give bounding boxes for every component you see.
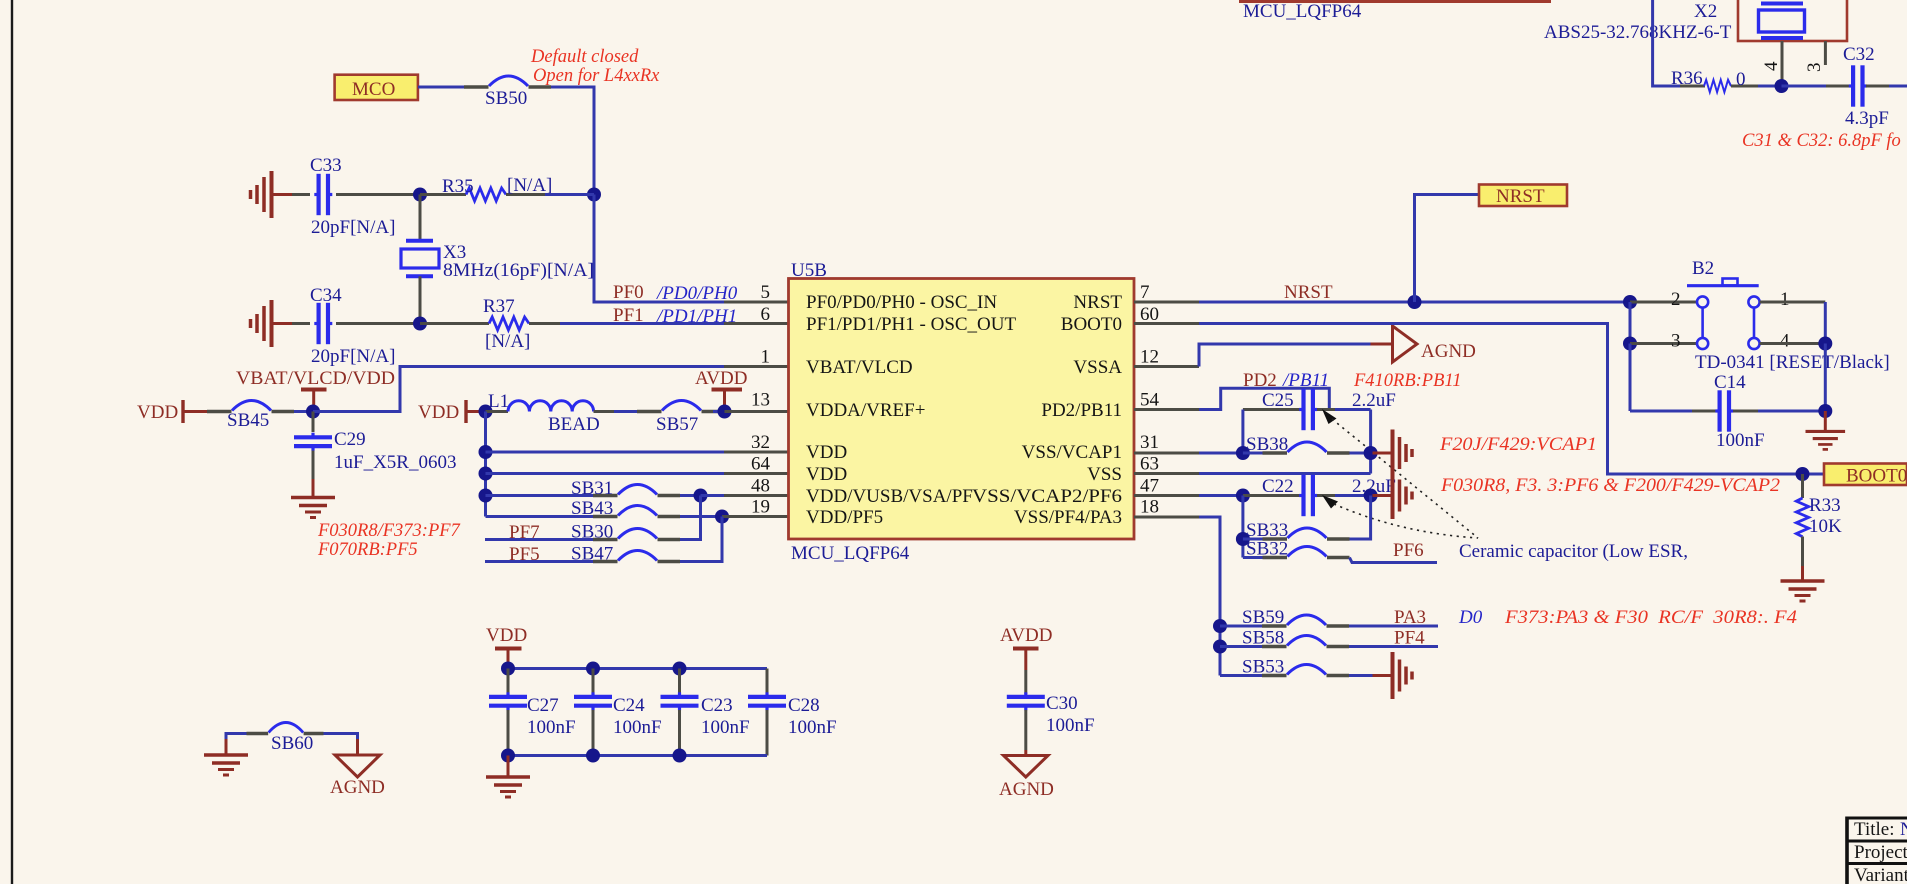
svg-text:100nF: 100nF — [788, 717, 837, 738]
svg-text:AVDD: AVDD — [695, 368, 747, 389]
dotted callout line C25 — [1332, 419, 1478, 538]
svg-text:3: 3 — [1804, 63, 1825, 73]
resistor R36 — [1680, 80, 1758, 92]
svg-text:C34: C34 — [310, 285, 342, 306]
solder bridge SB43 — [593, 506, 680, 517]
ground below C14 — [1806, 411, 1846, 449]
svg-text:PF1: PF1 — [613, 305, 644, 326]
svg-text:PF1/PD1/PH1 - OSC_OUT: PF1/PD1/PH1 - OSC_OUT — [806, 314, 1016, 335]
junction SB58 left — [1213, 640, 1227, 654]
svg-text:32: 32 — [751, 432, 770, 453]
svg-text:31: 31 — [1140, 432, 1159, 453]
wire to C22 — [1199, 494, 1243, 497]
junction C22 left — [1236, 489, 1250, 503]
junction rail row48 — [479, 489, 493, 503]
ground at SB53 — [1373, 652, 1413, 699]
svg-text:3: 3 — [1671, 331, 1681, 352]
wire row 64 — [486, 472, 725, 475]
capacitor C34 — [314, 303, 332, 344]
junction C34/X3/R37 — [413, 317, 427, 331]
capacitor C24 — [574, 669, 612, 756]
pin 12 stub — [1134, 365, 1199, 368]
pin 54 stub — [1134, 408, 1199, 411]
junction bottom rail C24 — [586, 749, 600, 763]
svg-text:R37: R37 — [483, 296, 515, 317]
junction BOOT0/R33 — [1796, 467, 1810, 481]
svg-text:7: 7 — [1140, 282, 1150, 303]
svg-text:/PD1/PH1: /PD1/PH1 — [656, 306, 737, 327]
pin 31 stub — [1134, 452, 1199, 455]
svg-text:R35: R35 — [442, 176, 474, 197]
svg-text:F030R8, F3. 3:PF6 & F200/F429-: F030R8, F3. 3:PF6 & F200/F429-VCAP2 — [1440, 476, 1780, 496]
wire NRST net — [1199, 301, 1632, 304]
pin 7 stub — [1134, 301, 1199, 304]
X2 pin 3 stem — [1824, 41, 1827, 65]
solder bridge SB53 — [1262, 665, 1349, 676]
svg-text:C33: C33 — [310, 155, 342, 176]
svg-text:Ceramic capacitor (Low ESR,: Ceramic capacitor (Low ESR, — [1459, 541, 1688, 562]
capacitor C14 — [1630, 390, 1825, 431]
svg-text:100nF: 100nF — [701, 717, 750, 738]
wire SB45 to junction — [294, 410, 313, 413]
svg-text:R33: R33 — [1809, 495, 1841, 516]
capacitor C30 — [1007, 670, 1045, 750]
junction bottom rail C23 — [673, 749, 687, 763]
svg-text:C25: C25 — [1262, 390, 1294, 411]
wire SB58 to PF4 label — [1349, 645, 1438, 648]
wire MCO to SB50 — [418, 86, 464, 89]
callout arrow at C25 — [1322, 409, 1337, 424]
ground at VCAP2 — [1373, 472, 1413, 519]
svg-text:NRST: NRST — [1284, 282, 1333, 303]
svg-text:5: 5 — [761, 282, 771, 303]
svg-text:AGND: AGND — [330, 777, 385, 798]
solder bridge SB58 — [1262, 636, 1349, 647]
svg-text:VDDA/VREF+: VDDA/VREF+ — [806, 400, 925, 421]
crystal X2 variant box — [1738, 0, 1847, 41]
wire top rail — [508, 667, 767, 670]
op-amp U5B MCU body — [789, 279, 1135, 540]
svg-text:PF4: PF4 — [1394, 628, 1425, 649]
wire button pin4 — [1760, 342, 1826, 345]
svg-text:VBAT/VLCD: VBAT/VLCD — [806, 357, 913, 378]
junction top rail C27 — [501, 662, 515, 676]
svg-text:L1: L1 — [488, 391, 509, 412]
junction AVDD/pin13 — [718, 405, 732, 419]
svg-text:C23: C23 — [701, 695, 733, 716]
svg-text:C29: C29 — [334, 429, 366, 450]
junction NRST riser — [1408, 295, 1422, 309]
svg-text:12: 12 — [1140, 347, 1159, 368]
svg-text:BOOT0: BOOT0 — [1846, 466, 1907, 487]
wire SB53 to ground — [1349, 674, 1374, 677]
wire right vertical to C14 row — [1824, 344, 1827, 412]
wire dot to SB33 — [1243, 538, 1264, 541]
wire pin54 riser to C25 — [1199, 388, 1329, 409]
transistor B2 pushbutton — [1687, 258, 1760, 349]
svg-text:PF0: PF0 — [613, 282, 644, 303]
resistor R35 — [420, 188, 545, 201]
capacitor C28 — [748, 669, 786, 756]
svg-text:4.3pF: 4.3pF — [1845, 108, 1889, 129]
wire VDD rail vertical — [484, 412, 487, 517]
solder bridge SB30 — [593, 529, 680, 540]
wire R36 to junction — [1758, 85, 1782, 88]
ground below C29 — [291, 479, 335, 518]
wire C33 to junction — [336, 193, 420, 196]
wire C25 right riser down — [1369, 410, 1372, 474]
port VDD (left) — [137, 400, 207, 423]
wire to SB58 — [1220, 645, 1262, 648]
svg-text:F030R8/F373:PF7: F030R8/F373:PF7 — [317, 521, 461, 541]
svg-text:Open for L4xxRx: Open for L4xxRx — [533, 66, 660, 86]
svg-text:AVDD: AVDD — [1000, 625, 1052, 646]
pin 18 stub — [1134, 516, 1199, 519]
junction pin48 node — [694, 489, 708, 503]
pin 6 stub — [724, 322, 789, 325]
ground below bank — [486, 756, 530, 798]
wire corner to SB32 — [1243, 556, 1264, 559]
port label MCO — [335, 75, 418, 100]
svg-text:10K: 10K — [1809, 516, 1842, 537]
port label NRST — [1479, 185, 1567, 208]
inductor L1 ferrite bead — [486, 401, 594, 412]
svg-text:C30: C30 — [1046, 693, 1078, 714]
wire dot to SB38 — [1243, 452, 1264, 455]
port VDD (second) — [418, 400, 486, 423]
solder bridge SB59 — [1262, 615, 1349, 626]
ground at C33 — [251, 171, 294, 218]
wire R37 to pin 6 — [560, 322, 724, 325]
power flag VBAT/VLCD/VDD — [236, 368, 395, 412]
X3 stem bottom — [419, 276, 422, 323]
capacitor C33 — [314, 174, 332, 215]
svg-text:C28: C28 — [788, 695, 820, 716]
wire SB57 to junction — [713, 410, 725, 413]
pin 32 stub — [724, 451, 789, 454]
wire to SB53 — [1220, 674, 1262, 677]
solder bridge SB60 — [247, 723, 324, 734]
junction VCAP2 node — [1364, 489, 1378, 503]
svg-text:SB45: SB45 — [227, 410, 269, 431]
pin 64 stub — [724, 472, 789, 475]
svg-text:Title:: Title: — [1854, 819, 1895, 840]
wire button left down to C14 — [1629, 344, 1632, 412]
svg-text:18: 18 — [1140, 497, 1159, 518]
wire SB60 right corner — [324, 734, 358, 742]
junction C33/X3/R35 — [413, 188, 427, 202]
wire to button pin2 — [1630, 301, 1696, 304]
svg-text:BOOT0: BOOT0 — [1061, 314, 1122, 335]
svg-text:VDD: VDD — [418, 402, 459, 423]
resistor R33 — [1796, 474, 1808, 566]
wire ground to C34 — [292, 322, 310, 325]
svg-text:6: 6 — [761, 304, 771, 325]
svg-text:47: 47 — [1140, 476, 1159, 497]
svg-text:VBAT/VLCD/VDD: VBAT/VLCD/VDD — [236, 368, 395, 389]
wire SB33 up to VCAP2 node — [1350, 496, 1371, 540]
svg-text:1uF_X5R_0603: 1uF_X5R_0603 — [334, 452, 456, 473]
wire button left vertical — [1629, 302, 1632, 344]
wire riser to pin5 row — [594, 195, 724, 303]
svg-text:1: 1 — [761, 347, 771, 368]
wire R35 to riser — [545, 193, 594, 196]
solder bridge SB31 — [593, 485, 680, 496]
svg-text:VDD: VDD — [486, 625, 527, 646]
wire to SB38 — [1199, 452, 1243, 455]
svg-text:PD2/PB11: PD2/PB11 — [1041, 400, 1122, 421]
wire PF5 to SB47 — [485, 560, 593, 563]
svg-text:100nF: 100nF — [1046, 715, 1095, 736]
junction rail row32 — [479, 445, 493, 459]
callout arrow at C22 — [1322, 495, 1338, 509]
svg-text:VDD/PF5: VDD/PF5 — [806, 507, 883, 528]
svg-text:C31 & C32: 6.8pF fo: C31 & C32: 6.8pF fo — [1742, 131, 1901, 151]
wire SB43 to junction — [680, 515, 722, 518]
wire SB32 to PF6 label — [1350, 558, 1438, 563]
wire bead to SB57 — [594, 410, 615, 413]
svg-text:NRST: NRST — [1073, 292, 1122, 313]
svg-text:VSS/VCAP2/PF6: VSS/VCAP2/PF6 — [972, 486, 1122, 507]
pin 5 stub — [724, 301, 789, 304]
dotted callout line C22 — [1334, 504, 1478, 538]
svg-text:SB58: SB58 — [1242, 628, 1284, 649]
svg-text:MCU_LQFP64: MCU_LQFP64 — [791, 543, 910, 564]
svg-text:8MHz(16pF)[N/A]: 8MHz(16pF)[N/A] — [443, 260, 594, 281]
svg-text:VSS/VCAP1: VSS/VCAP1 — [1022, 442, 1122, 463]
ground at VCAP1 — [1373, 430, 1413, 477]
svg-text:4: 4 — [1761, 61, 1782, 71]
svg-text:X2: X2 — [1694, 1, 1717, 22]
junction button left top — [1623, 295, 1637, 309]
svg-text:[N/A]: [N/A] — [507, 175, 552, 196]
wire rail to SB31 — [486, 494, 594, 497]
svg-text:C14: C14 — [1714, 372, 1746, 393]
power flag AVDD — [695, 368, 747, 412]
pin 1 stub — [724, 365, 789, 368]
wire to button pin3 — [1630, 342, 1696, 345]
svg-text:N: N — [1900, 819, 1907, 840]
junction SB33 left — [1236, 532, 1250, 546]
svg-text:VDD: VDD — [806, 442, 847, 463]
wire SB60 left corner — [226, 734, 248, 742]
pin 63 stub — [1134, 472, 1199, 475]
svg-text:NRST: NRST — [1496, 186, 1545, 207]
X3 stem top — [419, 195, 422, 242]
svg-text:R36: R36 — [1671, 68, 1703, 89]
ground AGND arrow — [1393, 326, 1418, 362]
power flag VDD — [486, 625, 527, 669]
wire SB47 up to pin19 node — [680, 517, 722, 562]
ground left of SB60 — [204, 750, 248, 775]
svg-text:64: 64 — [751, 454, 771, 475]
svg-text:TD-0341 [RESET/Black]: TD-0341 [RESET/Black] — [1695, 352, 1890, 373]
ground below R33 — [1781, 566, 1825, 601]
wire into AGND arrow — [1371, 343, 1394, 346]
capacitor C25 — [1243, 389, 1371, 430]
svg-text:[N/A]: [N/A] — [485, 331, 530, 352]
sheet border left edge — [11, 0, 13, 884]
svg-text:SB47: SB47 — [571, 544, 613, 565]
wire right vertical top — [1824, 302, 1827, 344]
junction under X2 pin 4 — [1775, 79, 1789, 93]
wire BOOT0 net — [1199, 324, 1824, 475]
svg-text:SB57: SB57 — [656, 414, 698, 435]
junction SB59 left — [1213, 619, 1227, 633]
junction SB38 left — [1236, 446, 1250, 460]
solder bridge SB45 — [207, 401, 294, 412]
svg-text:VSS: VSS — [1087, 464, 1122, 485]
wire rail corner to SB43 — [486, 515, 594, 518]
wire junction to C32 — [1782, 85, 1827, 88]
capacitor C27 — [489, 669, 527, 756]
pin 48 stub — [724, 494, 789, 497]
svg-text:SB53: SB53 — [1242, 657, 1284, 678]
capacitor C32 — [1849, 65, 1867, 106]
wire to SB59 — [1220, 625, 1262, 628]
svg-text:48: 48 — [751, 476, 770, 497]
wire SB38 to junction — [1350, 452, 1371, 455]
junction top rail C23 — [673, 662, 687, 676]
svg-text:VSSA: VSSA — [1073, 357, 1122, 378]
svg-text:VSS/PF4/PA3: VSS/PF4/PA3 — [1014, 507, 1122, 528]
svg-text:SB30: SB30 — [571, 522, 613, 543]
wire C22 left down to SB33/SB32 — [1241, 496, 1244, 558]
svg-text:1: 1 — [1780, 289, 1790, 310]
crystal X3 symbol — [401, 241, 439, 277]
svg-text:54: 54 — [1140, 390, 1160, 411]
wire SB30 up to pin48 node — [680, 496, 701, 540]
svg-text:C27: C27 — [527, 695, 559, 716]
svg-text:F070RB:PF5: F070RB:PF5 — [317, 540, 418, 560]
svg-text:20pF[N/A]: 20pF[N/A] — [311, 346, 395, 367]
svg-text:4: 4 — [1780, 331, 1790, 352]
svg-text:C22: C22 — [1262, 476, 1294, 497]
capacitor C22 — [1243, 475, 1371, 516]
ground AGND triangle right of SB60 — [335, 739, 380, 777]
svg-text:SB43: SB43 — [571, 498, 613, 519]
wire VSS to riser — [1199, 472, 1371, 475]
svg-text:MCO: MCO — [352, 79, 395, 100]
svg-text:VDD: VDD — [806, 464, 847, 485]
svg-text:VDD/VUSB/VSA/PF: VDD/VUSB/VSA/PF — [806, 486, 973, 507]
svg-text:2.2uF: 2.2uF — [1352, 390, 1396, 411]
svg-text:B2: B2 — [1692, 258, 1714, 279]
junction VBAT node — [306, 405, 320, 419]
port label BOOT0 — [1824, 464, 1907, 487]
wire SB50 down to PF0 row — [551, 87, 594, 195]
capacitor C29 — [294, 412, 332, 480]
svg-text:C24: C24 — [613, 695, 645, 716]
svg-text:60: 60 — [1140, 304, 1159, 325]
wire pin18 down to SB rows — [1199, 517, 1220, 676]
wire SB31 to junction — [680, 494, 701, 497]
svg-text:AGND: AGND — [1421, 341, 1476, 362]
solder bridge SB47 — [593, 551, 680, 562]
wire row 32 — [486, 451, 725, 454]
svg-text:19: 19 — [751, 497, 770, 518]
svg-text:SB32: SB32 — [1246, 539, 1288, 560]
power flag AVDD — [1000, 625, 1052, 670]
wire bottom rail — [508, 754, 767, 757]
junction rail row64 — [479, 467, 493, 481]
U5A MCU box bottom edge (off-screen block) — [1239, 0, 1551, 3]
svg-text:Default closed: Default closed — [530, 47, 639, 67]
junction C14/ground — [1818, 404, 1832, 418]
svg-text:SB50: SB50 — [485, 88, 527, 109]
solder bridge SB32 — [1263, 547, 1350, 558]
X2 pin 4 stem — [1781, 41, 1784, 86]
svg-text:Project: Project — [1854, 842, 1907, 863]
ground at C34 — [251, 300, 294, 347]
svg-text:100nF: 100nF — [613, 717, 662, 738]
junction VDD rail top — [479, 405, 493, 419]
svg-text:SB60: SB60 — [271, 733, 313, 754]
svg-text:VDD: VDD — [137, 402, 178, 423]
pin 19 stub — [722, 515, 789, 518]
wire C34 to junction — [336, 322, 420, 325]
capacitor C23 — [661, 669, 699, 756]
junction bottom rail C27 — [501, 749, 515, 763]
junction button right bottom — [1818, 337, 1832, 351]
wire PF7 to SB30 — [485, 538, 593, 541]
wire C25 left riser down — [1241, 410, 1244, 454]
wire VSSA riser — [1199, 344, 1371, 367]
solder bridge SB38 — [1263, 442, 1350, 453]
wire to riser and pin 1 — [313, 367, 724, 412]
solder bridge SB57 — [637, 401, 724, 412]
svg-text:63: 63 — [1140, 454, 1159, 475]
ground AGND triangle below C30 — [1004, 750, 1049, 777]
svg-text:100nF: 100nF — [527, 717, 576, 738]
wire ground to C33 — [292, 193, 310, 196]
solder bridge SB33 — [1263, 528, 1350, 539]
wire button pin1 to right vertical — [1760, 301, 1826, 304]
wire C32 to right edge — [1866, 85, 1889, 88]
svg-text:F20J/F429:VCAP1: F20J/F429:VCAP1 — [1439, 435, 1597, 455]
wire SB59 to PA3 label — [1349, 625, 1438, 628]
svg-text:100nF: 100nF — [1716, 430, 1765, 451]
svg-text:PF0/PD0/PH0 - OSC_IN: PF0/PD0/PH0 - OSC_IN — [806, 292, 997, 313]
svg-text:F410RB:PB11: F410RB:PB11 — [1353, 371, 1462, 391]
svg-text:ABS25-32.768KHZ-6-T: ABS25-32.768KHZ-6-T — [1544, 22, 1732, 43]
svg-text:SB59: SB59 — [1242, 607, 1284, 628]
svg-text:BEAD: BEAD — [548, 414, 600, 435]
svg-text:AGND: AGND — [999, 779, 1054, 800]
junction button left bottom — [1623, 337, 1637, 351]
svg-text:SB31: SB31 — [571, 478, 613, 499]
svg-text:20pF[N/A]: 20pF[N/A] — [311, 217, 395, 238]
junction top rail C24 — [586, 662, 600, 676]
svg-text:PA3: PA3 — [1394, 607, 1426, 628]
svg-text:2: 2 — [1671, 289, 1681, 310]
pin 60 stub — [1134, 322, 1199, 325]
svg-text:0: 0 — [1736, 69, 1746, 90]
resistor R37 — [420, 317, 560, 330]
svg-text:13: 13 — [751, 390, 770, 411]
solder bridge SB50 — [464, 76, 551, 87]
svg-text:U5B: U5B — [791, 260, 827, 281]
svg-text:MCU_LQFP64: MCU_LQFP64 — [1243, 1, 1362, 22]
junction VCAP1 node — [1364, 446, 1378, 460]
wire riser to NRST port — [1415, 195, 1480, 303]
svg-text:Variant: Variant — [1854, 865, 1907, 884]
pin 47 stub — [1134, 494, 1199, 497]
pin 13 stub — [725, 410, 790, 413]
junction pin19 node — [715, 510, 729, 524]
svg-text:D0: D0 — [1458, 607, 1483, 628]
wire: vertical feed from top to R36 row — [1653, 0, 1682, 86]
